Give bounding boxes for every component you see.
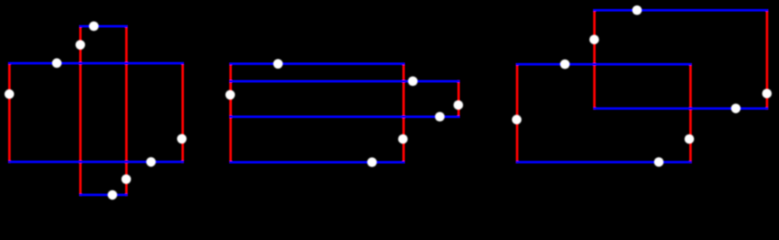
wire rect D top edge (horizontal) [231, 80, 459, 83]
wire rect D left edge (vertical) [229, 81, 232, 117]
wire rect E top edge (horizontal) [594, 9, 767, 12]
wire rect B right edge (vertical) [181, 63, 184, 162]
wire rect F right edge (vertical) [689, 64, 692, 162]
node on rect E top edge [632, 5, 642, 15]
node on rect F top edge [560, 59, 570, 69]
node on rect E bottom edge [731, 104, 741, 114]
wire rect A top edge (horizontal) [80, 25, 126, 28]
node on rect D right edge [454, 100, 464, 110]
wire rect B left edge (vertical) [8, 63, 11, 162]
node on rect F right edge [685, 134, 695, 144]
node on rect D bottom edge [435, 112, 445, 122]
wire rect E right edge (vertical) [766, 10, 769, 108]
node on rect B right edge [177, 134, 187, 144]
wire rect A left edge (vertical) [79, 26, 82, 195]
node on rect B bottom edge [146, 157, 156, 167]
wire rect A right edge (vertical) [125, 26, 128, 195]
node on rect A right edge [121, 174, 131, 184]
node on rect C bottom edge [367, 157, 377, 167]
wire rect C bottom edge (horizontal) [231, 161, 404, 164]
wire rect D right edge (vertical) [457, 81, 460, 117]
node on rect F bottom edge [654, 157, 664, 167]
wire rect E left edge (vertical) [593, 10, 596, 108]
wire rect B bottom edge (horizontal) [9, 161, 182, 164]
node on rect E left edge [589, 35, 599, 45]
wire rect B top edge (horizontal) [9, 62, 182, 65]
wire rect C top edge (horizontal) [231, 63, 404, 66]
node on rect E right edge [762, 89, 772, 99]
node on rect A left edge [76, 40, 86, 50]
node on rect D top edge [408, 76, 418, 86]
node on rect A bottom edge [108, 190, 118, 200]
node on rect A top edge [89, 21, 99, 31]
node on rect C left edge [225, 90, 235, 100]
wire rect F bottom edge (horizontal) [517, 161, 690, 164]
wire rect C left edge (vertical) [229, 64, 232, 162]
node on rect F left edge [512, 115, 522, 125]
wire rect E bottom edge (horizontal) [594, 107, 767, 110]
node on rect C top edge [273, 59, 283, 69]
wire rect A bottom edge (horizontal) [80, 194, 126, 197]
wire rect C right edge (vertical) [402, 64, 405, 162]
node on rect C right edge [398, 134, 408, 144]
wire rect D bottom edge (horizontal) [231, 115, 459, 118]
wire rect F top edge (horizontal) [517, 63, 690, 66]
node on rect B left edge [5, 89, 15, 99]
wire rect F left edge (vertical) [516, 64, 519, 162]
node on rect B top edge [52, 58, 62, 68]
